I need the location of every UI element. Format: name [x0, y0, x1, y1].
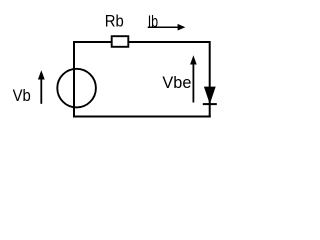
resistor Rb — [112, 36, 129, 47]
arrow Vbe — [190, 55, 197, 102]
current arrow Ib — [148, 24, 186, 31]
svg-text:Vbe: Vbe — [162, 73, 191, 92]
arrow Vb — [38, 70, 45, 104]
wire right vertical — [209, 41, 211, 118]
svg-text:Rb: Rb — [105, 11, 124, 30]
svg-text:Vb: Vb — [13, 86, 31, 105]
diode D1 — [203, 87, 217, 104]
wire left vertical — [73, 41, 75, 118]
wire bottom horizontal — [73, 116, 211, 118]
svg-text:Ib: Ib — [148, 12, 159, 31]
voltage source Vb circle — [57, 69, 96, 108]
wire top horizontal — [73, 41, 210, 43]
